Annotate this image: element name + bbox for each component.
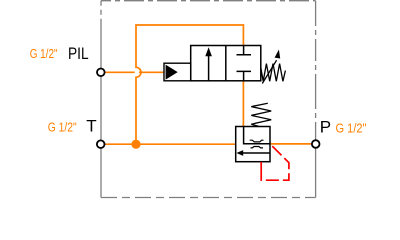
wire: PIL horizontal line (broken at hop): [105, 71, 135, 73]
svg-text:G 1/2": G 1/2": [30, 46, 58, 61]
relief valve RV seat curve lower: [251, 147, 264, 148]
wire: main line T port to relief valve: [105, 143, 236, 145]
valve V1 body: [191, 46, 261, 81]
wire: pilot rail vertical with hop, top horizontal, down to valve top: [136, 25, 243, 144]
red pilot drain line (dashed loop): [261, 146, 289, 180]
wire: relief valve to P port: [270, 143, 312, 145]
relief valve RV flow arrow: [243, 152, 270, 154]
valve V1 position divider: [225, 46, 227, 81]
port P circle: [312, 140, 320, 148]
port PIL circle: [97, 69, 105, 77]
junction node: [131, 140, 140, 149]
svg-text:P: P: [320, 118, 331, 137]
enclosure dashed border: top edge: [101, 0, 316, 2]
wire: valve bottom to relief valve top: [242, 81, 244, 126]
enclosure dashed border: left edge: [100, 1, 102, 198]
relief valve RV spring: [251, 103, 271, 126]
valve V1 spring adjustment arrow: [262, 60, 276, 83]
red pilot drain line (solid riser to valve bottom): [260, 162, 262, 181]
relief valve RV body: [236, 127, 270, 162]
enclosure dashed border: right edge: [315, 1, 317, 198]
relief valve RV inner cartridge box: [244, 127, 270, 144]
svg-text:PIL: PIL: [68, 44, 89, 63]
port T circle: [97, 140, 105, 148]
svg-text:G 1/2": G 1/2": [336, 121, 367, 136]
enclosure dashed border: bottom edge: [101, 197, 316, 199]
valve V1 pilot actuator box: [164, 63, 191, 81]
valve V1 blocked port top (right square): [237, 46, 252, 55]
valve V1 pilot triangle: [166, 65, 178, 80]
valve V1 return spring: [261, 64, 286, 82]
svg-text:G 1/2": G 1/2": [48, 120, 77, 135]
valve V1 flow arrow (left square): [208, 54, 210, 81]
relief valve RV seat curve upper: [250, 140, 264, 142]
svg-text:T: T: [86, 117, 96, 136]
valve V1 blocked port bottom (right square): [237, 71, 252, 80]
